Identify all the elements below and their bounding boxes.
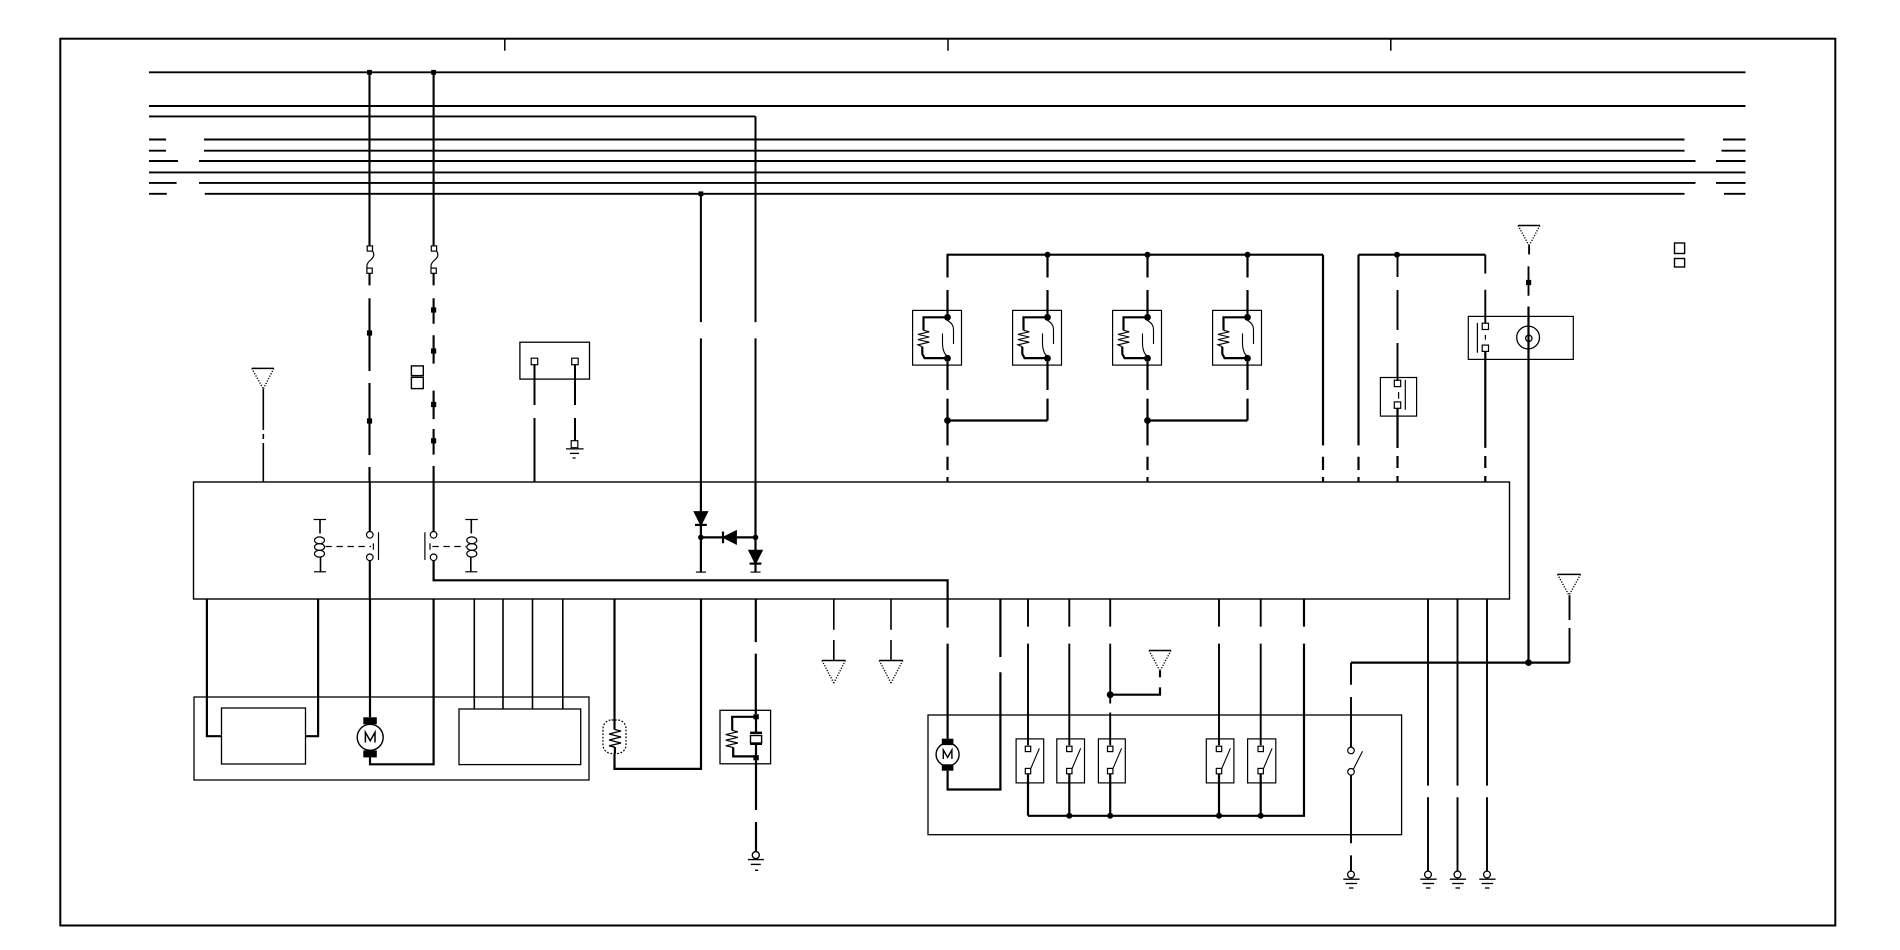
- internal relay coil A: [314, 520, 374, 572]
- bus wire L3: [149, 115, 756, 117]
- ground G4: [1420, 871, 1436, 888]
- bus wire L4: [149, 139, 1746, 141]
- riser wire left of bus2: [1357, 255, 1359, 482]
- noise suppressor box: [720, 710, 771, 764]
- jumper relay pair 3-4: [1144, 417, 1247, 482]
- switch assembly box (bottom right): [928, 715, 1402, 835]
- relay R1: [913, 255, 962, 421]
- diode D2 (inline, pointing left): [701, 532, 756, 544]
- sensor motor circle: [1527, 307, 1529, 663]
- page arrow triangle 1: [822, 661, 845, 684]
- page arrow triangle (antenna style) left: [252, 368, 274, 482]
- sensor terminals: [1477, 323, 1488, 353]
- border tick 1: [504, 39, 506, 51]
- control unit main box: [194, 482, 1510, 599]
- page arrow triangle right top: [1518, 226, 1540, 296]
- actuator sub box 2: [459, 709, 581, 765]
- lamp bulb: [603, 720, 626, 754]
- wire terminal box left pin down to control unit: [534, 365, 536, 482]
- wire pin3 to motor M1: [369, 599, 371, 717]
- wire bus2 right to sensor assembly: [1484, 255, 1486, 323]
- actuator assembly outer box: [194, 697, 589, 780]
- border tick 3: [1390, 39, 1392, 51]
- page arrow pin wire 2: [890, 599, 892, 660]
- jumper relay pair 1-2: [944, 417, 1047, 482]
- page arrow triangle 3: [1149, 651, 1171, 672]
- ground G1 under terminal box: [566, 441, 584, 458]
- relay bus (right section): [947, 252, 1323, 258]
- wire switch box S to control unit: [1396, 408, 1398, 482]
- diode D1: [695, 482, 707, 572]
- relay bus right riser: [1322, 255, 1324, 482]
- bus wire L8: [149, 182, 1746, 184]
- internal relay contact B: [425, 482, 466, 561]
- ground G3 under switch SW6: [1343, 871, 1359, 888]
- wire sensor assembly down to control unit: [1484, 351, 1486, 482]
- wire suppressor to ground: [755, 760, 757, 851]
- ground G2 under suppressor: [748, 852, 764, 871]
- wire pin2 to actuator box: [306, 599, 319, 736]
- wire pin1 to actuator box: [207, 599, 222, 736]
- inline connector double squares right: [1675, 243, 1685, 267]
- switch SW3: [1098, 599, 1125, 816]
- wire from L3 down to diode node B: [755, 116, 757, 482]
- fuse F2 column: [431, 72, 438, 482]
- wire pin to noise suppressor: [755, 599, 757, 714]
- page arrow triangle 2: [879, 661, 903, 684]
- border tick 2: [947, 39, 949, 51]
- relay R2: [1013, 255, 1062, 421]
- ground wire 2 from control unit: [1457, 599, 1459, 871]
- inline connector double squares left: [411, 366, 423, 389]
- wire motor M1 return to pin4: [370, 599, 434, 764]
- diode D3: [750, 482, 762, 572]
- actuator sub box 1: [222, 708, 306, 764]
- wire terminal box right pin down to ground: [574, 365, 576, 441]
- ground wire 1 from control unit: [1427, 599, 1429, 871]
- relay R4: [1213, 255, 1262, 421]
- bus wire L6: [149, 160, 1746, 162]
- internal wire relay B contact to bottom exit: [434, 561, 948, 599]
- switch SW6: [1348, 663, 1363, 872]
- ground wire 3 from control unit: [1486, 599, 1488, 871]
- wire motor M2 return: [948, 599, 1001, 790]
- bus wire L2: [149, 105, 1746, 107]
- internal relay contact A: [367, 482, 379, 599]
- jumper to page arrow triangle 3: [1107, 671, 1160, 698]
- switch SW4: [1206, 599, 1234, 816]
- wire from L9 down to diode node A: [700, 194, 702, 482]
- wire internal exit to motor M2: [946, 599, 948, 739]
- relay R3: [1113, 255, 1162, 421]
- switch SW1: [1016, 599, 1044, 816]
- motor M1: [357, 717, 383, 757]
- lower jumper wire to switch SW6: [1351, 595, 1570, 666]
- switch box S: [1380, 378, 1416, 417]
- internal relay coil B: [465, 520, 478, 572]
- bus wire L9: [149, 191, 1746, 196]
- switch return bus: [1028, 599, 1304, 819]
- bus wire L1: [149, 70, 1746, 75]
- bus wire L5: [149, 150, 1746, 152]
- motor M2: [936, 739, 959, 771]
- page arrow pin wire 1: [833, 599, 835, 660]
- wire pin to lamp: [613, 599, 615, 720]
- page arrow triangle right mid: [1558, 574, 1581, 595]
- right bus 2: [1359, 252, 1486, 258]
- wires pins to sub box 2: [474, 599, 563, 709]
- sensor assembly box: [1468, 316, 1573, 359]
- wire lamp return to pin: [615, 599, 702, 769]
- fuse F1 column: [367, 72, 374, 482]
- switch SW2: [1057, 599, 1085, 816]
- wire bus2 to switch box S: [1397, 255, 1399, 381]
- suppressor capacitor: [750, 719, 762, 755]
- ground G6: [1479, 871, 1495, 888]
- switch SW5: [1248, 599, 1276, 816]
- ground G5: [1450, 871, 1466, 888]
- suppressor resistor: [726, 714, 759, 760]
- bus wire L7: [149, 171, 1746, 173]
- terminal component box: [520, 342, 590, 379]
